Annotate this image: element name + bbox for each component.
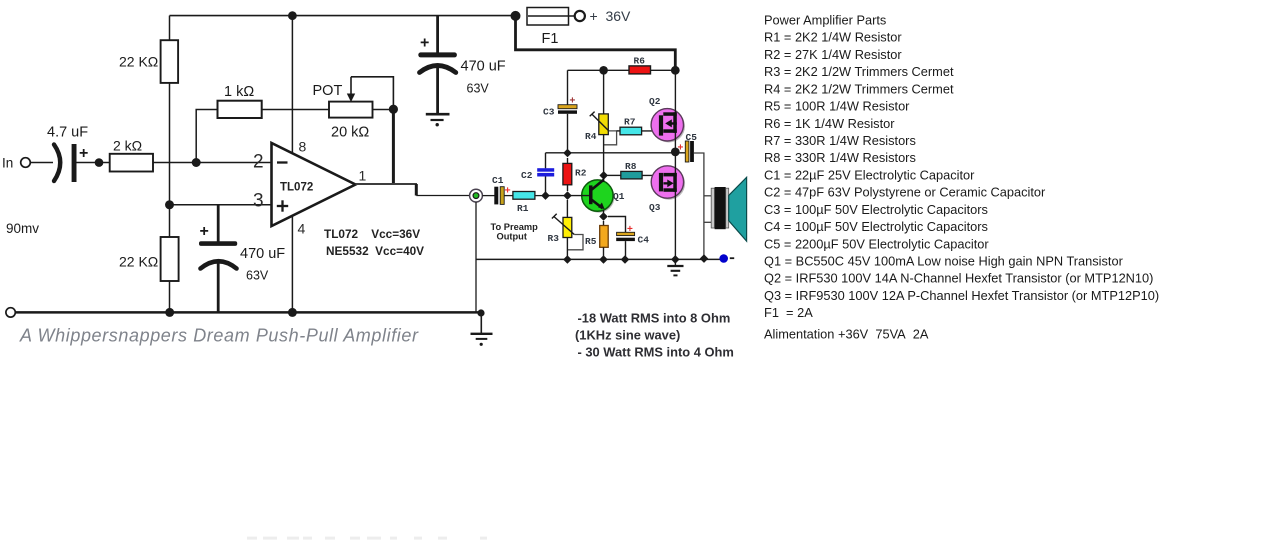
svg-text:470 uF: 470 uF: [240, 246, 285, 262]
node inverting input dot: [192, 158, 201, 167]
svg-text:In: In: [2, 156, 13, 171]
node Q3 rail diamond: [671, 255, 680, 264]
capacitor C5 negative plate: [690, 141, 694, 162]
svg-text:+: +: [678, 143, 684, 154]
transistor Q1 body: [583, 181, 614, 212]
wire corner down to C2: [545, 153, 547, 169]
capacitor C1 negative plate: [494, 187, 498, 205]
node Q1 collector diamond: [599, 171, 608, 180]
svg-text:1: 1: [359, 168, 367, 184]
wire connector down to ground rail: [475, 202, 477, 312]
svg-text:R2 = 27K 1/4W Resistor: R2 = 27K 1/4W Resistor: [764, 47, 902, 62]
trimmer R3 body: [563, 217, 572, 237]
svg-text:8: 8: [299, 139, 307, 155]
wire C4 branch: [608, 217, 626, 233]
node R5 rail diamond: [599, 255, 608, 264]
svg-text:Output: Output: [497, 232, 527, 242]
wire output step down (thick): [415, 184, 418, 196]
wire Q3 lead vertical: [674, 153, 676, 259]
resistor R8: [621, 171, 642, 179]
wire pin3 from node: [170, 204, 272, 206]
wire 22K top to 22K bottom vertical: [169, 83, 171, 237]
svg-text:To Preamp: To Preamp: [491, 222, 539, 232]
svg-text:F1 = 2A: F1 = 2A: [764, 305, 813, 320]
node A dot: [95, 158, 104, 167]
resistor R 22K bottom: [161, 237, 179, 281]
transistor Q3 symbol: [659, 173, 677, 192]
svg-text:+: +: [505, 185, 511, 197]
transistor Q1 symbol: [603, 175, 605, 182]
input connector to preamp: [470, 189, 483, 202]
svg-text:TL072 Vcc=36V: TL072 Vcc=36V: [324, 227, 420, 241]
terminal +36V circle: [575, 11, 585, 21]
top rail +36V: [170, 15, 516, 17]
capacitor 470uF lower: stem top: [217, 205, 220, 242]
POT wiper loop wire: [351, 77, 393, 109]
svg-text:TL072: TL072: [280, 182, 313, 194]
capacitor 470uF lower flat plate: [199, 241, 237, 246]
wire +36V feed thick: [516, 16, 676, 70]
svg-text:470 uF: 470 uF: [461, 59, 506, 75]
node Q1 emitter diamond: [599, 212, 608, 221]
node ground rail left dot: [165, 308, 174, 317]
capacitor C2 plates: [537, 168, 554, 172]
wire C3 stem bottom: [567, 114, 569, 153]
svg-text:C3: C3: [543, 107, 555, 118]
wire speaker stub top: [704, 195, 711, 197]
svg-text:C4 = 100µF 50V Electrolytic Ca: C4 = 100µF 50V Electrolytic Capacitors: [764, 219, 988, 234]
svg-text:4.7 uF: 4.7 uF: [47, 125, 88, 141]
wire pin8 to top rail: [291, 16, 293, 154]
node C3 bottom diamond: [563, 149, 572, 158]
resistor R8 wire left: [608, 174, 621, 176]
svg-text:R8: R8: [625, 161, 637, 172]
capacitor 470uF top curved plate: [420, 66, 456, 73]
wire C5 to speaker drop: [694, 153, 704, 259]
svg-text:+: +: [200, 223, 209, 240]
wire top branch C3 to R6: [568, 69, 630, 71]
svg-text:Q1: Q1: [613, 191, 625, 202]
output stage bottom rail: [476, 258, 724, 260]
wire R8 to Q3 gate: [642, 174, 659, 176]
wire R3 stem top: [566, 200, 568, 217]
trimmer R3 wiper jog: [568, 235, 584, 250]
capacitor C3 positive plate: [558, 105, 577, 109]
svg-text:R1: R1: [517, 203, 529, 214]
svg-text:R8 = 330R 1/4W Resistors: R8 = 330R 1/4W Resistors: [764, 150, 916, 165]
capacitor 470uF lower curved plate: [201, 261, 237, 268]
svg-text:C1: C1: [492, 175, 504, 186]
wire node to node base: [546, 195, 590, 197]
wire op-amp output: [356, 183, 418, 185]
POT wiper arrow: [350, 77, 352, 95]
svg-text:R7: R7: [624, 117, 636, 128]
ground symbol bottom left: [480, 313, 482, 333]
wire C2 bottom to node: [545, 177, 547, 196]
trimmer R3 wiper diagonal: [554, 217, 574, 235]
capacitor C1 positive plate: [500, 187, 504, 205]
wire 22K bottom to ground rail: [169, 281, 171, 312]
node fuse branch dot: [511, 11, 521, 21]
svg-text:R5 = 100R 1/4W Resistor: R5 = 100R 1/4W Resistor: [764, 99, 910, 114]
svg-text:C2: C2: [521, 170, 533, 181]
wire POT right to node: [373, 109, 394, 111]
terminal minus blue dot: [719, 254, 728, 263]
node R4 top dot: [599, 66, 608, 75]
minus dash: [730, 257, 734, 259]
svg-text:- 30 Watt RMS into 4 Ohm: - 30 Watt RMS into 4 Ohm: [578, 345, 734, 360]
wire C1 to R1: [504, 195, 513, 197]
wire R7 to Q2 gate: [642, 130, 659, 132]
capacitor C4 negative plate: [616, 238, 635, 241]
svg-text:1 kΩ: 1 kΩ: [224, 84, 254, 100]
node Q2 source dot: [671, 148, 680, 157]
svg-text:Power Amplifier Parts: Power Amplifier Parts: [764, 13, 886, 28]
svg-text:(1KHz sine wave): (1KHz sine wave): [575, 328, 680, 343]
wire feedback node down to output (thick): [392, 109, 395, 185]
svg-text:+: +: [570, 96, 576, 107]
node R3 rail diamond: [563, 255, 572, 264]
capacitor 4.7uF curved plate: [54, 145, 60, 182]
svg-text:R6: R6: [634, 56, 646, 67]
node R2 bottom diamond: [563, 191, 572, 200]
svg-text:Q3 = IRF9530 100V 12A P-Channe: Q3 = IRF9530 100V 12A P-Channel Hexfet T…: [764, 288, 1159, 303]
wire input to cap: [31, 162, 54, 164]
wire top rail corner down to 22K top: [169, 16, 171, 41]
svg-text:Q2 = IRF530 100V 14A N-Channel: Q2 = IRF530 100V 14A N-Channel Hexfet Tr…: [764, 271, 1153, 286]
trimmer R4 body: [599, 114, 609, 135]
capacitor 4.7uF straight plate: [72, 144, 77, 182]
svg-text:22 KΩ: 22 KΩ: [119, 54, 158, 70]
svg-text:Q1 = BC550C 45V 100mA Low nois: Q1 = BC550C 45V 100mA Low noise High gai…: [764, 254, 1124, 269]
resistor R5: [600, 226, 609, 248]
wire 2k to op-amp pin2: [153, 162, 272, 164]
svg-text:R4: R4: [585, 131, 597, 142]
node C4 rail diamond: [621, 255, 630, 264]
node POT output dot: [389, 105, 398, 114]
svg-text:2 kΩ: 2 kΩ: [113, 138, 142, 154]
svg-text:22 KΩ: 22 KΩ: [119, 254, 158, 270]
resistor R2: [563, 163, 572, 184]
svg-text:R5: R5: [585, 236, 597, 247]
wire R1 to node: [535, 195, 546, 197]
node pin4 ground dot: [288, 308, 297, 317]
svg-text:-18 Watt RMS into 8 Ohm: -18 Watt RMS into 8 Ohm: [578, 311, 731, 326]
svg-text:+: +: [79, 145, 88, 162]
node speaker rail diamond: [700, 254, 709, 263]
op-amp U1 TL072 triangle: [272, 143, 356, 226]
svg-text:+: +: [420, 35, 429, 52]
wire speaker stub bottom: [704, 221, 711, 223]
wire Q2 drain-source lead: [674, 70, 676, 153]
wire connector to C1: [483, 195, 495, 197]
wire C4 bottom to rail: [625, 241, 627, 259]
wire 1k to POT: [262, 109, 329, 111]
svg-text:2: 2: [253, 152, 264, 173]
svg-text:F1: F1: [542, 31, 559, 47]
svg-text:90mv: 90mv: [6, 221, 39, 236]
wire step to preamp connector: [416, 195, 470, 197]
wire Q1 emitter lead: [603, 210, 605, 217]
wire R6 to node: [651, 69, 676, 71]
capacitor 470uF lower stem bottom: [217, 261, 220, 312]
capacitor C3 negative plate: [558, 110, 577, 113]
svg-text:C4: C4: [638, 235, 650, 246]
wire R2 stems: [567, 158, 569, 164]
wire R7 left: [617, 130, 620, 132]
resistor R7: [620, 127, 642, 135]
wire 1k feedback left leg: [196, 110, 217, 163]
resistor R6: [629, 66, 651, 74]
wire C3 stem top: [567, 70, 569, 105]
node pin3 branch dot: [165, 200, 174, 209]
svg-text:R4 = 2K2 1/2W Trimmers Cermet: R4 = 2K2 1/2W Trimmers Cermet: [764, 81, 954, 96]
op-amp minus sign: [277, 161, 288, 163]
speaker magnet: [711, 188, 714, 228]
resistor 1k: [218, 101, 262, 118]
capacitor 470uF top stem bottom: [436, 66, 439, 113]
op-amp plus sign: [277, 205, 288, 207]
transistor Q2 symbol: [659, 112, 677, 135]
svg-text:R6 = 1K 1/4W Resistor: R6 = 1K 1/4W Resistor: [764, 116, 895, 131]
svg-text:63V: 63V: [467, 82, 490, 96]
transistor Q3 body: [653, 167, 685, 199]
svg-text:+: +: [627, 224, 633, 235]
svg-text:C3 = 100µF 50V Electrolytic Ca: C3 = 100µF 50V Electrolytic Capacitors: [764, 202, 988, 217]
svg-text:A Whippersnappers Dream Push-P: A Whippersnappers Dream Push-Pull Amplif…: [19, 326, 419, 346]
wire R5 stem top: [603, 221, 605, 226]
parts list: [764, 13, 1159, 342]
input terminal In: [21, 158, 31, 168]
node output stage top right dot: [671, 66, 680, 75]
svg-text:63V: 63V: [246, 269, 269, 283]
ground rail bottom left: [15, 311, 484, 314]
resistor R 22K top: [161, 40, 179, 83]
wire R5 bottom to rail: [603, 247, 605, 259]
svg-text:+ 36V: + 36V: [590, 8, 632, 24]
svg-text:Q3: Q3: [649, 202, 661, 213]
svg-text:NE5532 Vcc=40V: NE5532 Vcc=40V: [326, 244, 424, 258]
potentiometer POT 20k body: [329, 102, 373, 118]
ground symbol output stage: [674, 259, 676, 265]
wire pin4 down to ground rail: [291, 216, 293, 313]
svg-text:R3 = 2K2 1/2W Trimmers Cermet: R3 = 2K2 1/2W Trimmers Cermet: [764, 64, 954, 79]
wire feedback line y153: [546, 152, 686, 154]
svg-text:POT: POT: [313, 83, 343, 99]
trimmer R4 wiper diagonal: [592, 114, 609, 131]
wire cap to node: [77, 162, 111, 164]
resistor R1: [513, 192, 535, 200]
node R1 right diamond: [541, 191, 550, 200]
svg-text:C1 = 22µF 25V Electrolytic Cap: C1 = 22µF 25V Electrolytic Capacitor: [764, 167, 975, 182]
ground under top 470uF: [426, 113, 450, 116]
capacitor 470uF top: stem: [436, 16, 439, 53]
capacitor 470uF top flat plate: [418, 52, 457, 57]
node top rail dot: [288, 11, 297, 20]
node ground rail end blob: [477, 309, 484, 316]
svg-text:R7 = 330R 1/4W Resistors: R7 = 330R 1/4W Resistors: [764, 133, 916, 148]
capacitor C4 positive plate: [617, 232, 635, 235]
svg-text:4: 4: [298, 221, 306, 237]
transistor Q2 body: [653, 110, 685, 142]
fuse F1 body: [527, 8, 569, 26]
wire R4 stem top: [603, 70, 605, 114]
ground rail left terminal: [6, 308, 15, 317]
svg-text:R3: R3: [548, 233, 560, 244]
wire R4 bottom to collector node: [603, 135, 605, 176]
svg-text:C2 = 47pF 63V Polystyrene or C: C2 = 47pF 63V Polystyrene or Ceramic Cap…: [764, 185, 1046, 200]
svg-text:R2: R2: [575, 168, 587, 179]
resistor 2k: [110, 154, 153, 172]
fuse F1 element line: [528, 15, 574, 17]
trimmer R4 wiper jog: [604, 131, 617, 145]
speaker cone: [729, 177, 747, 241]
svg-text:20 kΩ: 20 kΩ: [331, 125, 369, 141]
svg-text:3: 3: [253, 191, 264, 212]
svg-text:R1 = 2K2 1/4W Resistor: R1 = 2K2 1/4W Resistor: [764, 30, 902, 45]
svg-text:C5 = 2200µF 50V Electrolytic C: C5 = 2200µF 50V Electrolytic Capacitor: [764, 236, 989, 251]
wire R3 bottom to rail: [566, 238, 568, 260]
svg-text:Alimentation +36V 75VA 2A: Alimentation +36V 75VA 2A: [764, 327, 929, 342]
svg-text:C5: C5: [686, 132, 698, 143]
faint cropped text at bottom edge: [247, 537, 487, 540]
svg-text:Q2: Q2: [649, 96, 661, 107]
capacitor C5 positive plate: [685, 141, 689, 162]
